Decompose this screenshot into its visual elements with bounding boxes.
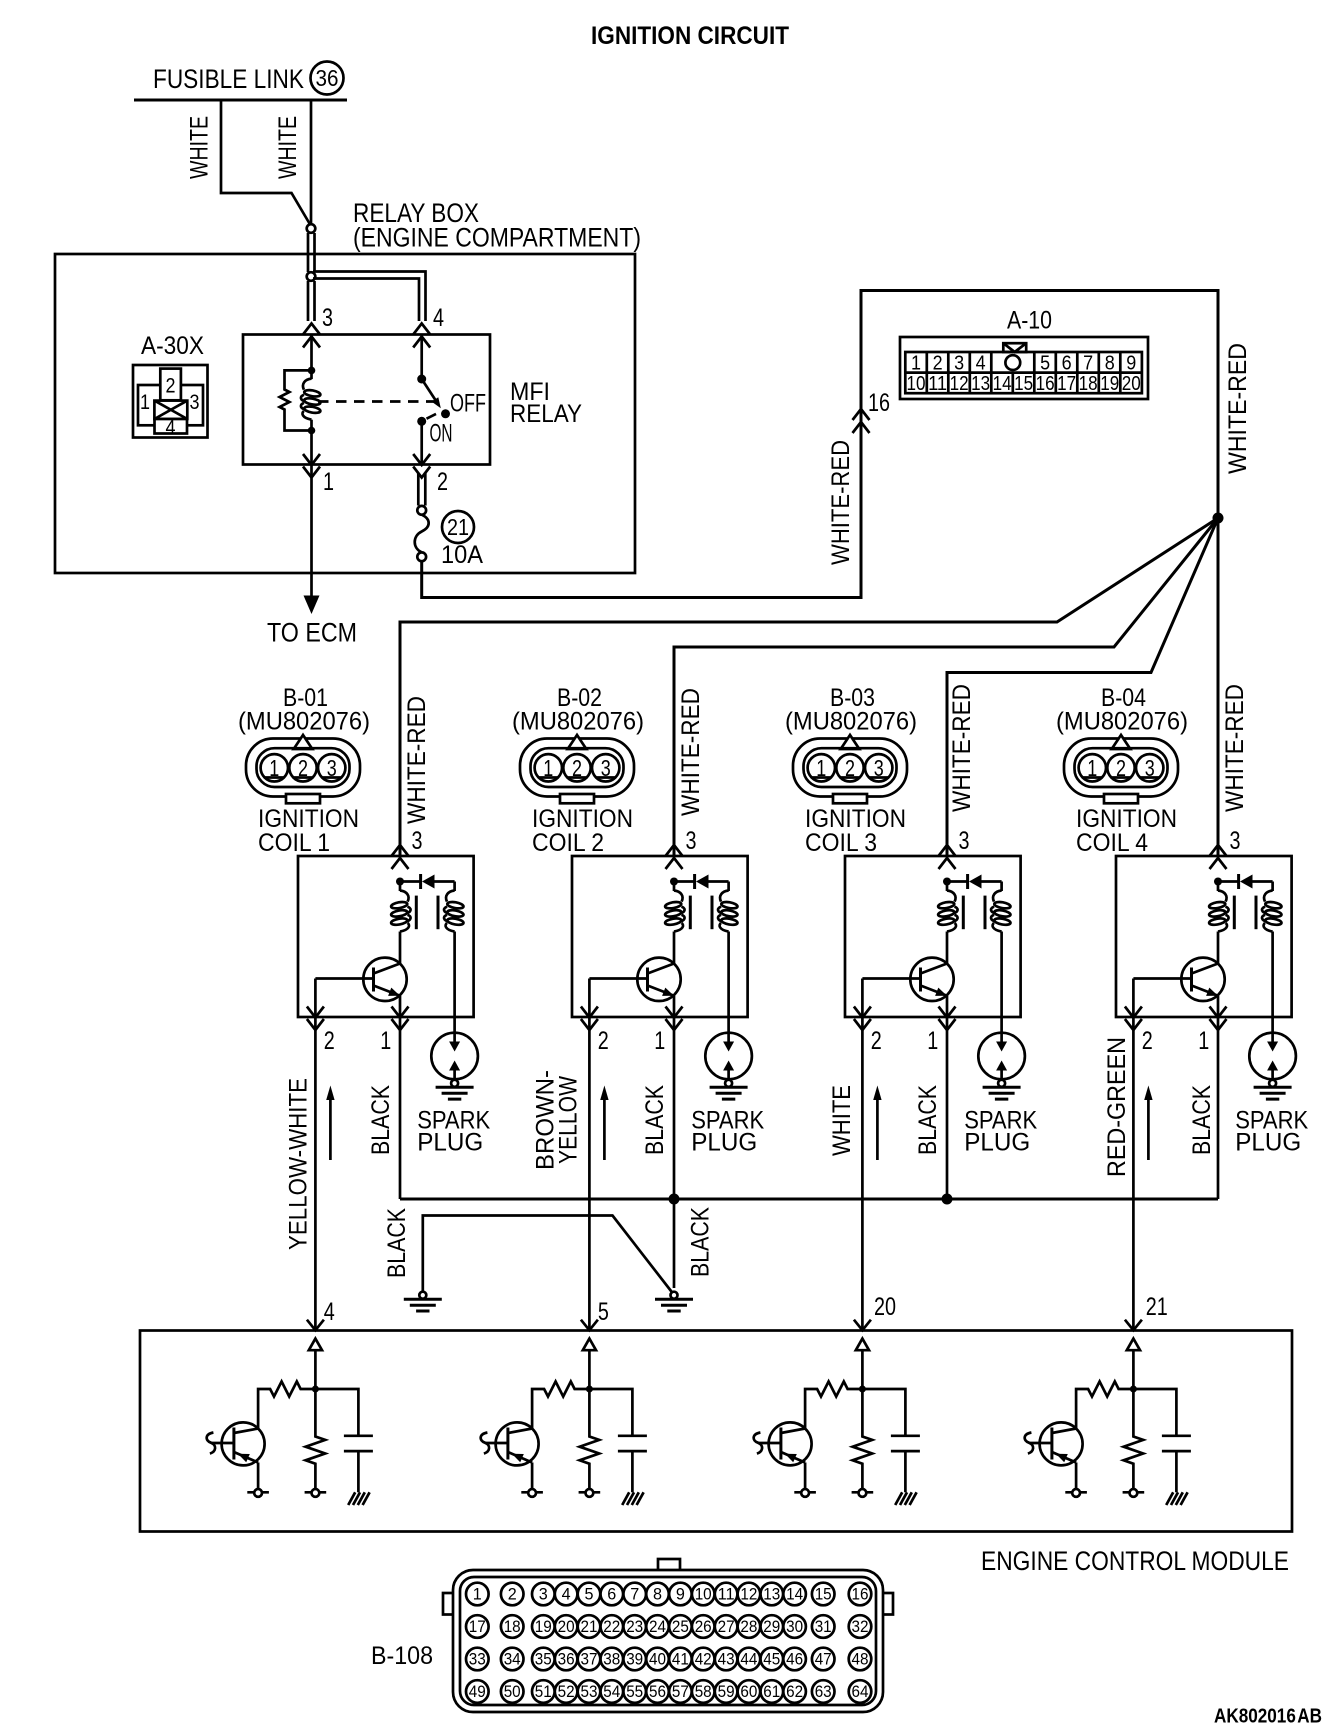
svg-text:WHITE-RED: WHITE-RED bbox=[1224, 343, 1252, 474]
svg-text:17: 17 bbox=[1057, 373, 1076, 395]
svg-text:20: 20 bbox=[874, 1293, 896, 1321]
harness pair to relay pin 4 bbox=[313, 272, 426, 322]
svg-text:13: 13 bbox=[971, 373, 990, 395]
svg-text:33: 33 bbox=[469, 1650, 486, 1669]
svg-text:B-108: B-108 bbox=[371, 1642, 433, 1670]
svg-text:36: 36 bbox=[316, 65, 339, 91]
svg-text:13: 13 bbox=[763, 1585, 780, 1604]
svg-text:COIL 1: COIL 1 bbox=[258, 829, 330, 857]
svg-text:59: 59 bbox=[718, 1682, 735, 1701]
harness pair down bbox=[308, 233, 315, 272]
svg-text:1: 1 bbox=[140, 391, 150, 414]
svg-text:WHITE-RED: WHITE-RED bbox=[1221, 684, 1249, 812]
svg-text:40: 40 bbox=[649, 1650, 666, 1669]
svg-text:WHITE-RED: WHITE-RED bbox=[677, 688, 705, 816]
svg-text:1: 1 bbox=[473, 1585, 482, 1604]
svg-text:7: 7 bbox=[1083, 353, 1093, 375]
switch blade bbox=[422, 379, 438, 404]
svg-text:8: 8 bbox=[1105, 353, 1115, 375]
svg-text:58: 58 bbox=[695, 1682, 712, 1701]
svg-text:1: 1 bbox=[911, 353, 921, 375]
wire to pin 1 bbox=[310, 431, 313, 465]
svg-text:55: 55 bbox=[626, 1682, 643, 1701]
fuse upper terminal bbox=[417, 506, 426, 515]
relay coil top node bbox=[308, 367, 316, 375]
svg-text:(MU802076): (MU802076) bbox=[238, 708, 370, 736]
svg-text:12: 12 bbox=[950, 373, 969, 395]
svg-text:57: 57 bbox=[672, 1682, 689, 1701]
MFI relay pin 4 entry arrows bbox=[413, 324, 430, 348]
svg-text:6: 6 bbox=[607, 1585, 616, 1604]
svg-text:WHITE: WHITE bbox=[186, 116, 214, 179]
actuation dashed link bbox=[318, 400, 441, 403]
ON contact bbox=[427, 414, 437, 419]
svg-text:44: 44 bbox=[740, 1650, 757, 1669]
svg-text:5: 5 bbox=[585, 1585, 594, 1604]
svg-text:30: 30 bbox=[786, 1617, 803, 1636]
svg-text:COIL 3: COIL 3 bbox=[805, 829, 877, 857]
splice connector upper bbox=[307, 224, 316, 233]
ignition coil 2 (B-02) bbox=[520, 735, 764, 1330]
relay coil bbox=[310, 370, 313, 379]
ECM driver 3 bbox=[754, 1339, 920, 1505]
fuse element bbox=[415, 515, 429, 553]
svg-text:BLACK: BLACK bbox=[383, 1208, 411, 1278]
svg-text:54: 54 bbox=[603, 1682, 620, 1701]
OFF contact bbox=[441, 409, 450, 418]
relay coil resistor bbox=[280, 370, 312, 430]
ignition coil 3 (B-03) bbox=[793, 735, 1037, 1330]
svg-text:39: 39 bbox=[626, 1650, 643, 1669]
ECM driver 4 bbox=[1025, 1339, 1191, 1505]
svg-text:51: 51 bbox=[535, 1682, 552, 1701]
svg-text:A-30X: A-30X bbox=[141, 332, 204, 360]
svg-text:TO ECM: TO ECM bbox=[267, 618, 357, 648]
svg-text:BLACK: BLACK bbox=[914, 1085, 942, 1155]
svg-text:WHITE: WHITE bbox=[828, 1085, 856, 1156]
branch wire to ignition coil 1 bbox=[400, 518, 1218, 856]
svg-text:FUSIBLE LINK: FUSIBLE LINK bbox=[153, 64, 304, 94]
svg-text:ENGINE CONTROL MODULE: ENGINE CONTROL MODULE bbox=[981, 1546, 1289, 1576]
svg-text:48: 48 bbox=[852, 1650, 869, 1669]
svg-text:10: 10 bbox=[695, 1585, 712, 1604]
svg-text:3: 3 bbox=[539, 1585, 548, 1604]
wire to ECM bbox=[310, 465, 313, 596]
junction node bbox=[1213, 513, 1224, 524]
branch wire to ignition coil 2 bbox=[674, 518, 1218, 856]
svg-text:A-10: A-10 bbox=[1007, 307, 1052, 335]
svg-text:21: 21 bbox=[581, 1617, 598, 1636]
fuse 21 sleeve bbox=[418, 473, 425, 506]
MFI relay box bbox=[243, 335, 490, 465]
svg-text:14: 14 bbox=[993, 373, 1012, 395]
relay coil branch wire bbox=[310, 335, 313, 371]
fuse lower terminal bbox=[417, 552, 426, 561]
svg-text:24: 24 bbox=[649, 1617, 666, 1636]
MFI relay pin 3 entry arrows bbox=[303, 324, 320, 348]
svg-text:WHITE-RED: WHITE-RED bbox=[403, 696, 431, 824]
svg-text:25: 25 bbox=[672, 1617, 689, 1636]
svg-text:IGNITION CIRCUIT: IGNITION CIRCUIT bbox=[591, 22, 789, 50]
svg-text:BLACK: BLACK bbox=[641, 1085, 669, 1155]
svg-text:19: 19 bbox=[1100, 373, 1119, 395]
svg-text:56: 56 bbox=[649, 1682, 666, 1701]
svg-text:21: 21 bbox=[447, 514, 469, 540]
svg-text:BLACK: BLACK bbox=[1188, 1085, 1216, 1155]
svg-text:10: 10 bbox=[907, 373, 926, 395]
svg-text:34: 34 bbox=[504, 1650, 521, 1669]
svg-text:61: 61 bbox=[763, 1682, 780, 1701]
svg-text:15: 15 bbox=[815, 1585, 832, 1604]
switch pivot bbox=[417, 375, 426, 384]
svg-text:15: 15 bbox=[1014, 373, 1033, 395]
wire to pin 2 bbox=[420, 421, 423, 464]
B-108 pins 49-64 bbox=[466, 1680, 871, 1703]
svg-text:(ENGINE COMPARTMENT): (ENGINE COMPARTMENT) bbox=[353, 223, 641, 253]
svg-text:47: 47 bbox=[815, 1650, 832, 1669]
svg-text:63: 63 bbox=[815, 1682, 832, 1701]
svg-text:29: 29 bbox=[763, 1617, 780, 1636]
svg-text:BLACK: BLACK bbox=[367, 1085, 395, 1155]
svg-text:38: 38 bbox=[603, 1650, 620, 1669]
svg-text:YELLOW: YELLOW bbox=[555, 1076, 583, 1164]
svg-text:23: 23 bbox=[626, 1617, 643, 1636]
svg-text:OFF: OFF bbox=[450, 390, 486, 418]
svg-text:50: 50 bbox=[504, 1682, 521, 1701]
svg-text:4: 4 bbox=[562, 1585, 571, 1604]
svg-text:2: 2 bbox=[508, 1585, 517, 1604]
svg-text:60: 60 bbox=[740, 1682, 757, 1701]
ground 1 branch wire bbox=[423, 1216, 672, 1293]
svg-text:46: 46 bbox=[786, 1650, 803, 1669]
svg-text:35: 35 bbox=[535, 1650, 552, 1669]
svg-text:27: 27 bbox=[718, 1617, 735, 1636]
svg-text:17: 17 bbox=[469, 1617, 486, 1636]
B-108 pins 1-16 bbox=[466, 1583, 871, 1606]
B-108 pins 33-48 bbox=[466, 1648, 871, 1671]
svg-text:21: 21 bbox=[1146, 1293, 1168, 1321]
svg-text:WHITE-RED: WHITE-RED bbox=[827, 440, 855, 565]
svg-text:42: 42 bbox=[695, 1650, 712, 1669]
svg-text:9: 9 bbox=[676, 1585, 685, 1604]
svg-text:COIL 2: COIL 2 bbox=[532, 829, 604, 857]
svg-text:11: 11 bbox=[718, 1585, 735, 1604]
svg-text:4: 4 bbox=[976, 353, 986, 375]
svg-text:19: 19 bbox=[535, 1617, 552, 1636]
svg-text:2: 2 bbox=[437, 468, 448, 496]
svg-text:5: 5 bbox=[1040, 353, 1050, 375]
ignition coil 1 (B-01) bbox=[246, 735, 490, 1330]
white-red feed wire from fuse to A-10 and junction bbox=[422, 291, 1218, 857]
svg-text:28: 28 bbox=[740, 1617, 757, 1636]
svg-text:31: 31 bbox=[815, 1617, 832, 1636]
svg-text:6: 6 bbox=[1062, 353, 1072, 375]
connector A-30X symbol bbox=[133, 365, 208, 440]
harness pair to relay pin 3 bbox=[308, 281, 315, 321]
svg-text:BLACK: BLACK bbox=[687, 1207, 715, 1277]
svg-text:49: 49 bbox=[469, 1682, 486, 1701]
svg-text:(MU802076): (MU802076) bbox=[512, 708, 644, 736]
svg-text:53: 53 bbox=[581, 1682, 598, 1701]
bus junction at coil 2 bbox=[669, 1194, 680, 1205]
svg-text:37: 37 bbox=[581, 1650, 598, 1669]
A-10 pin 16 entry arrows bbox=[853, 409, 870, 433]
svg-text:36: 36 bbox=[558, 1650, 575, 1669]
svg-text:62: 62 bbox=[786, 1682, 803, 1701]
fusible link number 36 bbox=[311, 62, 344, 95]
ground 1 bbox=[404, 1292, 442, 1311]
relay coil bottom node bbox=[308, 427, 316, 435]
svg-text:43: 43 bbox=[718, 1650, 735, 1669]
svg-text:12: 12 bbox=[740, 1585, 757, 1604]
connector A-10 bbox=[900, 337, 1148, 399]
svg-text:ON: ON bbox=[430, 420, 453, 448]
svg-text:41: 41 bbox=[672, 1650, 689, 1669]
bus junction at coil 3 bbox=[942, 1194, 953, 1205]
wire white left bbox=[221, 100, 311, 226]
ground 2 bbox=[655, 1292, 693, 1311]
svg-text:3: 3 bbox=[954, 353, 964, 375]
svg-text:(MU802076): (MU802076) bbox=[785, 708, 917, 736]
svg-text:4: 4 bbox=[166, 417, 176, 440]
svg-text:11: 11 bbox=[928, 373, 947, 395]
svg-text:16: 16 bbox=[1036, 373, 1055, 395]
svg-text:3: 3 bbox=[190, 391, 200, 414]
ECM driver 2 bbox=[481, 1339, 647, 1505]
svg-text:10A: 10A bbox=[441, 541, 483, 569]
svg-text:WHITE: WHITE bbox=[274, 116, 302, 179]
branch wire to ignition coil 3 bbox=[947, 518, 1218, 856]
svg-text:18: 18 bbox=[1079, 373, 1098, 395]
MFI relay pin 2 exit arrows bbox=[413, 454, 430, 478]
svg-text:16: 16 bbox=[852, 1585, 869, 1604]
svg-text:14: 14 bbox=[786, 1585, 803, 1604]
relay box (engine compartment) bbox=[55, 254, 635, 573]
svg-text:45: 45 bbox=[763, 1650, 780, 1669]
svg-text:WHITE-RED: WHITE-RED bbox=[948, 684, 976, 812]
svg-text:16: 16 bbox=[868, 389, 890, 417]
svg-text:20: 20 bbox=[1122, 373, 1141, 395]
svg-text:COIL 4: COIL 4 bbox=[1076, 829, 1148, 857]
svg-text:RELAY: RELAY bbox=[510, 400, 582, 428]
B-108 pins 17-32 bbox=[466, 1615, 871, 1638]
connector B-108 shell bbox=[443, 1559, 893, 1712]
svg-text:8: 8 bbox=[653, 1585, 662, 1604]
svg-text:5: 5 bbox=[598, 1298, 609, 1326]
svg-text:26: 26 bbox=[695, 1617, 712, 1636]
svg-text:4: 4 bbox=[433, 304, 444, 332]
wire white right bbox=[310, 100, 313, 224]
svg-text:(MU802076): (MU802076) bbox=[1056, 708, 1188, 736]
svg-text:2: 2 bbox=[166, 375, 176, 398]
svg-text:18: 18 bbox=[504, 1617, 521, 1636]
svg-text:YELLOW-WHITE: YELLOW-WHITE bbox=[285, 1078, 313, 1250]
svg-text:32: 32 bbox=[852, 1617, 869, 1636]
svg-text:1: 1 bbox=[323, 468, 334, 496]
fuse number 21 bbox=[442, 511, 474, 543]
ground bus wire bbox=[400, 1198, 1218, 1201]
svg-text:RED-GREEN: RED-GREEN bbox=[1103, 1037, 1131, 1177]
fusible link bus bar bbox=[134, 99, 347, 102]
engine control module box bbox=[140, 1331, 1292, 1532]
svg-text:64: 64 bbox=[852, 1682, 869, 1701]
svg-text:9: 9 bbox=[1126, 353, 1136, 375]
switch common wire bbox=[420, 335, 423, 380]
ignition coil 4 (B-04) bbox=[1064, 735, 1308, 1330]
MFI relay pin 1 exit arrows bbox=[303, 454, 320, 478]
svg-text:AK802016 AB: AK802016 AB bbox=[1214, 1706, 1322, 1728]
splice connector lower bbox=[307, 272, 316, 281]
black wire to ground 2 bbox=[673, 1199, 676, 1288]
svg-text:4: 4 bbox=[324, 1298, 335, 1326]
svg-text:3: 3 bbox=[322, 304, 333, 332]
svg-text:20: 20 bbox=[558, 1617, 575, 1636]
ECM driver 1 bbox=[207, 1339, 373, 1505]
svg-text:52: 52 bbox=[558, 1682, 575, 1701]
svg-text:7: 7 bbox=[630, 1585, 639, 1604]
svg-text:2: 2 bbox=[933, 353, 943, 375]
svg-text:22: 22 bbox=[603, 1617, 620, 1636]
